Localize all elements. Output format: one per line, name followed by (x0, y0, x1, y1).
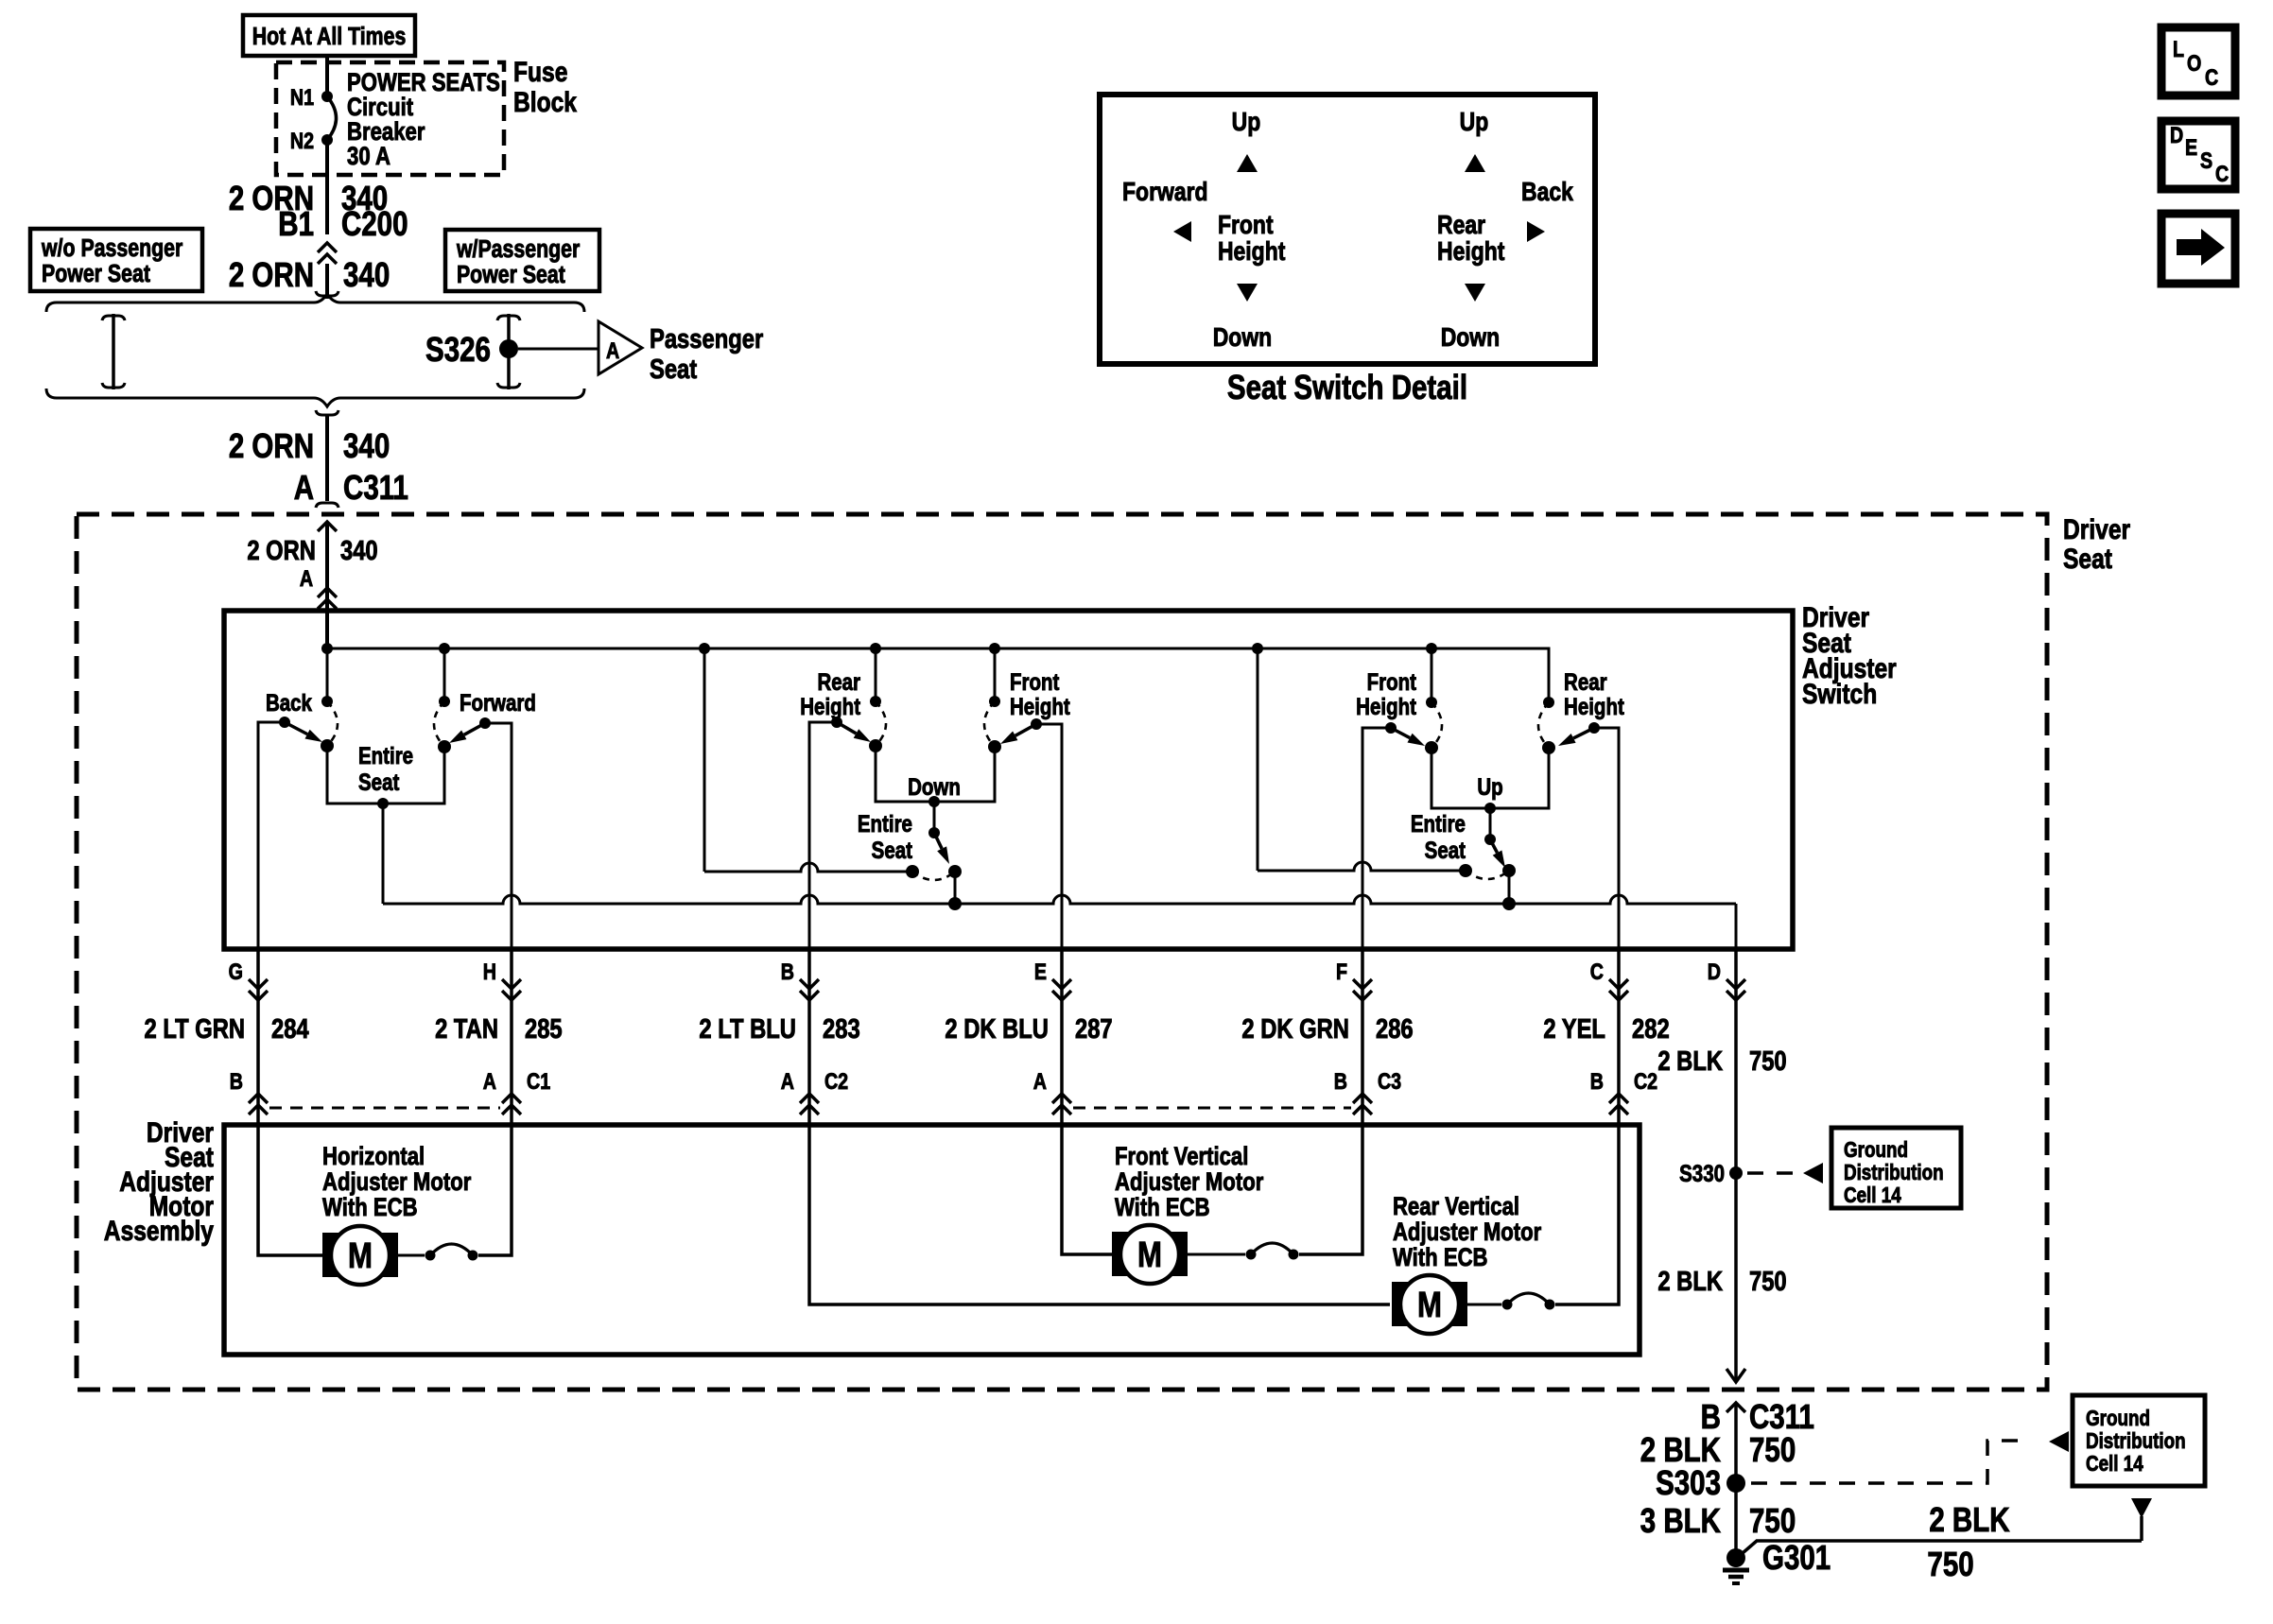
svg-text:With ECB: With ECB (1393, 1244, 1488, 1272)
wire: pin G into horizontal motor (258, 1125, 323, 1255)
svg-text:Rear: Rear (1437, 211, 1485, 240)
icon: down arrow front (1237, 284, 1258, 302)
off-page connector triangle A to Passenger Seat (599, 321, 642, 374)
svg-text:L: L (2173, 36, 2184, 61)
svg-text:Height: Height (1437, 237, 1505, 267)
svg-text:w/Passenger: w/Passenger (456, 235, 580, 264)
svg-text:M: M (1137, 1235, 1162, 1275)
svg-text:2 LT BLU: 2 LT BLU (699, 1013, 796, 1045)
svg-text:A: A (483, 1068, 496, 1094)
svg-text:340: 340 (343, 255, 390, 293)
icon: left arrow front (1173, 221, 1191, 242)
switch g2 Front Height moving contact (988, 740, 1001, 753)
svg-text:Ground: Ground (2086, 1407, 2150, 1430)
svg-text:2 BLK: 2 BLK (1929, 1500, 2009, 1538)
svg-text:Fuse: Fuse (513, 56, 567, 88)
switch pin F wire to motor assembly (1361, 949, 1364, 1125)
svg-text:With ECB: With ECB (1115, 1194, 1210, 1222)
svg-text:750: 750 (1749, 1266, 1787, 1297)
svg-text:2 LT GRN: 2 LT GRN (145, 1013, 246, 1045)
Seat Switch Detail box (1100, 95, 1595, 364)
wire: g3 Rear Height pivot to pin C (1594, 728, 1619, 949)
switch g2 Rear Height pivot and arm (831, 717, 842, 728)
svg-text:284: 284 (271, 1013, 309, 1045)
bus junction rear height switch g2 (870, 643, 881, 654)
switch Forward pivot and arm (479, 717, 491, 729)
svg-text:287: 287 (1075, 1013, 1113, 1045)
switch Forward moving contact (438, 740, 451, 753)
svg-text:2 DK BLU: 2 DK BLU (945, 1013, 1049, 1045)
svg-text:B: B (1334, 1068, 1347, 1094)
svg-text:C1: C1 (527, 1068, 550, 1094)
switch pin E wire to motor assembly (1060, 949, 1064, 1125)
switch g2 Entire Seat pivot and arm (928, 827, 940, 838)
svg-text:D: D (1708, 959, 1721, 984)
switch g3 Front Height moving contact (1425, 741, 1438, 754)
svg-text:A: A (781, 1068, 794, 1094)
svg-text:Distribution: Distribution (2086, 1429, 2186, 1453)
switch g2 Rear Height (stationary contact) (870, 696, 881, 707)
svg-text:N2: N2 (290, 128, 314, 153)
switch g3 Front Height (stationary contact) (1426, 697, 1437, 708)
svg-text:Height: Height (800, 693, 860, 719)
svg-text:G301: G301 (1762, 1538, 1831, 1576)
svg-text:Seat Switch Detail: Seat Switch Detail (1227, 368, 1467, 406)
wire: w/o passenger power seat path (102, 316, 125, 320)
svg-text:Height: Height (1010, 693, 1070, 719)
switch supply bus wire (325, 613, 329, 648)
icon: up arrow front (1237, 154, 1258, 172)
svg-text:Assembly: Assembly (104, 1215, 215, 1247)
fuse block dashed box (276, 62, 504, 175)
connector C1 dashed link (269, 1107, 500, 1110)
bus junction entire-seat feeder 2 (1252, 643, 1263, 654)
switch g3 Rear Height (stationary contact) (1543, 697, 1554, 708)
switch g3 Rear Height pivot and arm (1588, 722, 1600, 734)
svg-text:Back: Back (266, 689, 312, 716)
svg-text:Entire: Entire (1411, 810, 1466, 837)
label box: Hot At All Times (243, 15, 415, 56)
svg-text:Seat: Seat (872, 837, 913, 863)
svg-text:Back: Back (1521, 178, 1574, 207)
svg-text:M: M (1417, 1286, 1442, 1325)
switch Back moving contact (321, 739, 334, 752)
wire: C311 to S303 (1734, 1403, 1738, 1554)
svg-text:Seat: Seat (1425, 837, 1466, 863)
wire: w/passenger path through splice (497, 316, 520, 320)
Driver Seat component dashed box (77, 514, 2047, 1390)
wire: g3 Front Height pivot to pin F (1362, 728, 1391, 949)
svg-text:750: 750 (1749, 1045, 1787, 1077)
switch Forward (stationary contact) (439, 696, 450, 707)
bus junction front height switch g3 (1426, 643, 1437, 654)
svg-text:C200: C200 (341, 204, 408, 242)
wire: bus to Back switch contact (326, 648, 329, 701)
wire: upper rail entire-seat feeder 1 (703, 648, 706, 872)
svg-text:Entire: Entire (858, 810, 912, 837)
svg-text:A: A (606, 337, 619, 363)
wire: battery feed from Hot At All Times into fuse block (325, 56, 329, 96)
ground G301 (1726, 1548, 1745, 1567)
svg-text:Front: Front (1367, 668, 1417, 695)
svg-text:285: 285 (525, 1013, 563, 1045)
svg-text:B: B (230, 1068, 243, 1094)
svg-text:M: M (348, 1236, 373, 1276)
svg-text:2 TAN: 2 TAN (435, 1013, 498, 1045)
svg-text:Adjuster Motor: Adjuster Motor (1393, 1218, 1542, 1247)
svg-text:S303: S303 (1656, 1463, 1721, 1501)
svg-text:Height: Height (1564, 693, 1624, 719)
svg-text:O: O (2187, 50, 2201, 76)
svg-text:S: S (2200, 147, 2212, 173)
svg-text:Horizontal: Horizontal (322, 1143, 425, 1171)
wire: front vertical motor to pin F (1299, 1125, 1362, 1254)
icon: right arrow rear (1527, 221, 1545, 242)
svg-text:2 DK GRN: 2 DK GRN (1241, 1013, 1349, 1045)
svg-text:Down: Down (1441, 323, 1500, 353)
wire: C311 into driver seat switch (318, 522, 337, 531)
svg-text:B: B (781, 959, 794, 984)
svg-text:750: 750 (1927, 1545, 1973, 1582)
wire: Back pivot to pin G (258, 722, 285, 949)
svg-text:2 YEL: 2 YEL (1543, 1013, 1605, 1045)
svg-text:Rear: Rear (817, 668, 860, 695)
svg-text:Forward: Forward (1122, 178, 1208, 207)
motor M horizontal adjuster (322, 1233, 398, 1277)
wire: ground distribution 2 down to G301 (2131, 1498, 2152, 1518)
switch pin C wire to motor assembly (1617, 949, 1621, 1125)
svg-text:E: E (1034, 959, 1047, 984)
wire: pin E into front vertical motor (1062, 1125, 1113, 1254)
svg-text:C: C (2215, 161, 2229, 186)
wire: g2 common bar Down (876, 746, 995, 802)
svg-text:Rear: Rear (1564, 668, 1607, 695)
wire: horizontal motor to pin H (478, 1125, 512, 1255)
wire: Forward pivot to pin H (485, 723, 512, 949)
svg-text:B1: B1 (278, 204, 314, 242)
label box: w/o Passenger Power Seat (30, 229, 202, 291)
svg-text:C: C (1590, 959, 1604, 984)
svg-text:2 ORN: 2 ORN (229, 255, 314, 293)
switch g3 Rear Height moving contact (1542, 741, 1555, 754)
splice S326 (499, 339, 518, 358)
svg-text:E: E (2185, 134, 2197, 160)
wire: fuse output to C200 (325, 140, 329, 234)
switch g2 Entire Seat moving contact (948, 865, 962, 878)
svg-text:Driver: Driver (2063, 513, 2130, 545)
label box: w/Passenger Power Seat (445, 230, 599, 291)
label box: Ground Distribution Cell 14 (lower) (2073, 1395, 2205, 1486)
breaker ECB horizontal motor (397, 1254, 425, 1257)
wire: group1 common bar (327, 746, 444, 803)
svg-text:Power Seat: Power Seat (457, 261, 565, 289)
svg-text:Adjuster Motor: Adjuster Motor (1115, 1168, 1264, 1197)
harness option brace upper (46, 294, 584, 312)
wire: g2 entire seat switch feed (933, 802, 936, 833)
wire: g2 Front Height pivot to pin E (1036, 724, 1062, 949)
wire: C200 to harness split (325, 264, 329, 299)
svg-text:283: 283 (823, 1013, 860, 1045)
svg-text:C2: C2 (824, 1068, 848, 1094)
svg-text:Entire: Entire (358, 742, 413, 769)
svg-text:A: A (1033, 1068, 1047, 1094)
svg-text:With ECB: With ECB (322, 1194, 418, 1222)
wire: entire-seat feeder 2 rail (1257, 648, 1259, 871)
svg-text:Passenger: Passenger (650, 323, 763, 354)
svg-text:282: 282 (1632, 1013, 1670, 1045)
connector C3 dashed link (1073, 1107, 1351, 1110)
switch pin B wire to motor assembly (807, 949, 811, 1125)
wire: rear vertical motor to pin C (1555, 1125, 1619, 1304)
switch g2 Front Height pivot and arm (1031, 718, 1042, 730)
svg-text:C: C (2205, 64, 2218, 90)
switch pin D ground wire (1734, 949, 1738, 1172)
splice S303 (1726, 1474, 1745, 1493)
motor M rear vertical adjuster (1392, 1282, 1467, 1326)
switch pin G wire to motor assembly (256, 949, 260, 1125)
connector C311 pin B crossing driver seat box (1726, 1369, 1745, 1382)
harness option brace lower (46, 389, 584, 406)
svg-text:Front: Front (1010, 668, 1060, 695)
bus junction entire-seat feeder 1 (699, 643, 710, 654)
switch pin H wire to motor assembly (510, 949, 513, 1125)
Driver Seat Adjuster Switch box (224, 611, 1793, 949)
wire: bus to g3 Front Height contact (1431, 648, 1433, 702)
svg-text:2 ORN: 2 ORN (247, 535, 316, 566)
svg-text:Seat: Seat (358, 769, 400, 795)
icon box next-page arrow (2161, 214, 2235, 284)
bus junction front height switch g2 (989, 643, 1000, 654)
wire: pin B into rear vertical motor (809, 1125, 1390, 1304)
svg-text:H: H (483, 959, 496, 984)
svg-text:N1: N1 (290, 84, 314, 110)
svg-text:Front Vertical: Front Vertical (1115, 1143, 1248, 1171)
svg-text:2 BLK: 2 BLK (1657, 1266, 1723, 1297)
svg-text:A: A (300, 565, 313, 591)
svg-text:Up: Up (1477, 773, 1502, 800)
svg-text:S326: S326 (425, 330, 491, 368)
svg-text:Seat: Seat (2063, 543, 2112, 575)
svg-text:Block: Block (513, 86, 578, 118)
svg-text:C3: C3 (1378, 1068, 1401, 1094)
wire: bus to g2 Rear Height contact (875, 648, 877, 701)
svg-text:340: 340 (343, 426, 390, 464)
svg-text:Switch: Switch (1802, 678, 1877, 710)
svg-text:Ground: Ground (1844, 1138, 1908, 1162)
svg-text:Front: Front (1218, 211, 1274, 240)
bus junction forward switch (439, 643, 450, 654)
svg-text:F: F (1336, 959, 1347, 984)
svg-text:2 BLK: 2 BLK (1657, 1045, 1723, 1077)
svg-text:Up: Up (1232, 108, 1261, 137)
wire: g2 entire seat to lower rail (954, 872, 957, 904)
svg-text:Distribution: Distribution (1844, 1161, 1944, 1184)
svg-text:w/o Passenger: w/o Passenger (41, 234, 182, 263)
svg-text:Adjuster Motor: Adjuster Motor (322, 1168, 472, 1197)
wire: g3 entire seat to lower rail (1508, 871, 1511, 904)
wire: group1 entire seat tap to lower rail (382, 803, 385, 904)
wire: bus to g2 Front Height contact (994, 648, 997, 701)
switch g2 Front Height (stationary contact) (989, 696, 1000, 707)
wire: S330 to C311 pin B (1734, 1172, 1738, 1369)
svg-text:750: 750 (1749, 1501, 1796, 1539)
svg-text:Rear Vertical: Rear Vertical (1393, 1193, 1519, 1221)
circuit breaker POWER SEATS 30 A (N1-N2) (321, 91, 333, 102)
svg-text:Hot At All Times: Hot At All Times (252, 23, 407, 51)
icon: up arrow rear (1465, 154, 1485, 172)
svg-text:Forward: Forward (460, 689, 536, 716)
svg-text:Down: Down (1213, 323, 1272, 353)
wire: g3 entire seat switch feed (1489, 808, 1492, 839)
breaker ECB rear vertical motor (1466, 1304, 1501, 1306)
svg-text:Height: Height (1218, 237, 1286, 267)
wire: lower return rail to pin D (383, 895, 1736, 904)
switch Back pivot and arm (279, 717, 290, 728)
svg-text:D: D (2170, 122, 2183, 147)
svg-text:G: G (229, 959, 243, 984)
switch g2 Entire Seat stationary contact (906, 865, 919, 878)
label box: Ground Distribution Cell 14 (upper) (1831, 1128, 1961, 1208)
svg-text:Height: Height (1356, 693, 1416, 719)
svg-text:Cell 14: Cell 14 (2086, 1452, 2143, 1476)
svg-text:30 A: 30 A (347, 143, 390, 171)
dashed reference to ground distribution 1 (1747, 1171, 1798, 1175)
switch g3 Entire Seat moving contact (1502, 864, 1516, 877)
svg-text:2 ORN: 2 ORN (229, 426, 314, 464)
svg-text:C311: C311 (343, 468, 408, 506)
motor M front vertical adjuster (1112, 1232, 1188, 1276)
svg-text:3 BLK: 3 BLK (1640, 1501, 1721, 1539)
svg-text:286: 286 (1376, 1013, 1414, 1045)
switch g3 Entire Seat pivot and arm (1484, 834, 1496, 845)
breaker ECB front vertical motor (1187, 1253, 1245, 1256)
icon box LOC (2161, 27, 2235, 95)
wire: bus to Forward switch contact (443, 648, 446, 701)
Driver Seat Adjuster Motor Assembly box (224, 1125, 1640, 1355)
svg-text:Cell 14: Cell 14 (1844, 1183, 1901, 1207)
switch Back (stationary contact) (321, 696, 333, 707)
svg-text:A: A (294, 468, 314, 506)
splice S330 (1729, 1166, 1743, 1180)
switch g3 Entire Seat stationary contact (1459, 864, 1472, 877)
switch g3 Front Height pivot and arm (1385, 722, 1397, 734)
svg-text:C2: C2 (1634, 1068, 1657, 1094)
wire: g2 Rear Height pivot to pin B (809, 722, 837, 949)
svg-text:Seat: Seat (650, 354, 697, 385)
wire: S326 to passenger seat (518, 348, 599, 351)
svg-text:750: 750 (1749, 1430, 1796, 1468)
svg-text:340: 340 (340, 535, 378, 566)
switch g2 Rear Height moving contact (869, 739, 882, 752)
svg-text:Power Seat: Power Seat (42, 260, 150, 288)
wire: harness to C311 (316, 410, 338, 415)
svg-text:B: B (1590, 1068, 1604, 1094)
icon: down arrow rear (1465, 284, 1485, 302)
bus junction at feed (321, 643, 333, 654)
icon box DESC (2161, 121, 2235, 189)
dashed reference to ground distribution 2 (1751, 1441, 2023, 1483)
svg-text:Up: Up (1460, 108, 1489, 137)
wire: g3 common bar Up (1431, 748, 1549, 808)
svg-text:S330: S330 (1679, 1160, 1725, 1186)
